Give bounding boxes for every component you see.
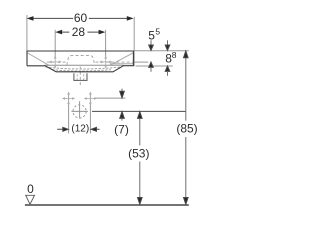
svg-text:0: 0 <box>27 182 34 196</box>
svg-text:8: 8 <box>172 50 177 60</box>
svg-text:5: 5 <box>155 27 160 37</box>
svg-text:28: 28 <box>72 25 86 39</box>
svg-text:5: 5 <box>148 28 155 42</box>
svg-text:(12): (12) <box>71 124 89 135</box>
svg-text:(7): (7) <box>114 122 129 136</box>
svg-text:(53): (53) <box>128 146 149 160</box>
svg-text:60: 60 <box>74 11 88 25</box>
svg-text:(85): (85) <box>176 122 197 136</box>
